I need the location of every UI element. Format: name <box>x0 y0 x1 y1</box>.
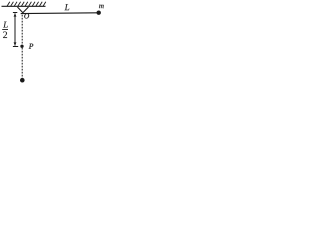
fraction bar <box>2 29 8 31</box>
label m <box>99 5 104 8</box>
label L (rod) <box>64 4 69 10</box>
point P dot <box>20 45 23 48</box>
pivot support triangle <box>17 7 28 13</box>
dimension arrowhead up <box>14 13 17 17</box>
fraction denominator 2 <box>3 32 7 38</box>
dashed vertical line (equilibrium) <box>21 15 23 79</box>
dimension arrowhead down <box>14 42 17 46</box>
dimension line L/2 <box>13 13 18 47</box>
mass m dot <box>97 11 101 15</box>
rod of length L <box>21 12 98 15</box>
ball at bottom of dashed line <box>20 78 25 83</box>
background <box>0 0 108 85</box>
ceiling hatching <box>7 2 46 7</box>
label P <box>29 44 33 49</box>
label O (pivot) <box>24 14 29 19</box>
ceiling line <box>2 5 46 7</box>
fraction L/2: numerator L <box>3 22 8 28</box>
